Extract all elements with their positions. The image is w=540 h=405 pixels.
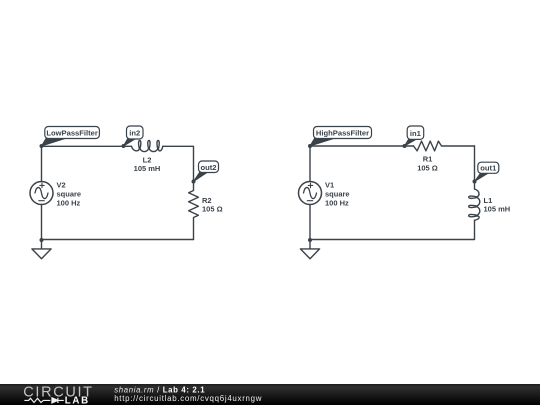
wire: left circuit coil to top-right corner and down xyxy=(163,146,194,181)
svg-text:100 Hz: 100 Hz xyxy=(325,198,349,207)
node dot: in1 xyxy=(403,144,407,148)
svg-text:LAB: LAB xyxy=(65,396,90,405)
node dot: left bottom junction xyxy=(40,238,44,242)
svg-text:105 mH: 105 mH xyxy=(134,164,161,173)
node dot: in2 xyxy=(122,144,126,148)
resistor R2 xyxy=(189,182,199,240)
svg-text:in2: in2 xyxy=(129,129,140,138)
footer bar xyxy=(0,384,540,405)
wire: left circuit source to bottom node xyxy=(41,205,43,241)
flag LowPassFilter xyxy=(42,127,100,147)
node dot: LowPassFilter node xyxy=(40,144,44,148)
svg-text:out2: out2 xyxy=(200,163,216,172)
flag in1 xyxy=(405,126,424,146)
wire: left circuit left vertical top (node to source) xyxy=(41,146,43,182)
svg-text:105 Ω: 105 Ω xyxy=(202,205,223,214)
svg-text:out1: out1 xyxy=(480,164,497,173)
svg-text:in1: in1 xyxy=(410,129,422,138)
wire: left circuit lead into coil xyxy=(124,145,132,147)
wire: right source to bottom node xyxy=(309,205,311,241)
flag out2 xyxy=(194,161,219,182)
node dot: right bottom junction xyxy=(308,238,312,242)
svg-text:100 Hz: 100 Hz xyxy=(57,198,81,207)
voltage source V1 xyxy=(299,182,322,205)
svg-text:V2: V2 xyxy=(57,180,66,189)
node dot: HighPassFilter node xyxy=(308,144,312,148)
logo resistor zigzag xyxy=(24,398,50,402)
svg-text:V1: V1 xyxy=(325,180,334,189)
wire: right circuit left vertical top xyxy=(309,146,311,182)
wire: left circuit top horizontal xyxy=(42,145,124,147)
svg-text:square: square xyxy=(57,189,82,198)
voltage source V2 xyxy=(30,182,53,205)
inductor L2 xyxy=(132,140,163,151)
svg-text:R1: R1 xyxy=(423,154,433,163)
flag in2 xyxy=(124,126,144,146)
svg-text:LowPassFilter: LowPassFilter xyxy=(46,129,98,138)
wire: right lead into resistor xyxy=(405,145,414,147)
node dot: out1 xyxy=(473,180,477,184)
flag HighPassFilter xyxy=(310,127,372,147)
wire: node to coil xyxy=(474,182,476,190)
svg-text:105 mH: 105 mH xyxy=(484,205,511,214)
wire: left circuit bottom horizontal xyxy=(42,239,194,241)
wire: right circuit coil to bottom corner xyxy=(310,220,475,239)
inductor L1 xyxy=(469,189,480,220)
wire: right circuit right vertical to node xyxy=(474,146,476,182)
ground (left) xyxy=(32,240,51,259)
svg-text:HighPassFilter: HighPassFilter xyxy=(316,129,369,138)
wire: right circuit top horizontal xyxy=(310,145,405,147)
svg-text:square: square xyxy=(325,189,350,198)
flag out1 xyxy=(475,162,499,181)
resistor R1 xyxy=(414,141,475,151)
svg-text:105 Ω: 105 Ω xyxy=(417,163,438,172)
ground (right) xyxy=(300,240,319,259)
svg-text:http://circuitlab.com/cvqq6j4u: http://circuitlab.com/cvqq6j4uxrngw xyxy=(114,394,262,403)
logo diode xyxy=(52,398,64,403)
node dot: out2 xyxy=(192,180,196,184)
